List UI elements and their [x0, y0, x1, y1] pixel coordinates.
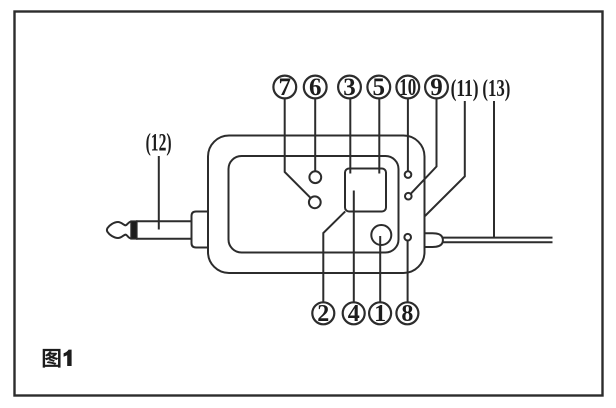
svg-text:5: 5	[373, 74, 386, 101]
leader 4	[353, 191, 355, 303]
plug insulator band	[131, 221, 137, 239]
leader 1	[379, 236, 381, 302]
small circle 8	[404, 234, 411, 241]
label circle 6	[304, 76, 327, 99]
label circle 10	[396, 76, 419, 99]
leader 11	[425, 101, 465, 216]
cable	[442, 238, 552, 243]
small circle 10	[405, 171, 412, 178]
device body inner panel	[229, 156, 399, 253]
button circle 1	[371, 225, 391, 245]
figure label tu (Chinese char)	[43, 349, 61, 368]
plug collar	[192, 212, 209, 248]
leader 2	[323, 211, 345, 302]
cable boot	[425, 233, 443, 247]
svg-text:10: 10	[399, 75, 416, 101]
indicator circle 6	[309, 171, 321, 183]
leader 13	[493, 101, 495, 238]
device body outer shell	[208, 136, 425, 274]
leader 8	[407, 241, 409, 303]
svg-text:2: 2	[317, 301, 329, 327]
svg-text:(13): (13)	[482, 76, 510, 102]
svg-text:3: 3	[343, 74, 356, 101]
svg-text:6: 6	[309, 74, 322, 101]
leader 7	[285, 99, 311, 198]
leader 10	[407, 99, 409, 172]
svg-text:1: 1	[374, 301, 386, 327]
svg-text:(11): (11)	[451, 76, 479, 102]
label circle 8	[396, 302, 418, 324]
svg-text:7: 7	[279, 74, 292, 101]
label circle 1	[369, 302, 391, 324]
svg-text:(12): (12)	[146, 130, 172, 157]
leader 12	[158, 156, 160, 230]
leader 5	[378, 99, 380, 174]
plug tip	[107, 222, 131, 239]
small circle 9	[405, 193, 412, 200]
leader 6	[314, 99, 316, 172]
label circle 4	[343, 302, 365, 324]
display window 3	[345, 169, 386, 212]
leader 9	[411, 99, 437, 194]
indicator circle 7	[309, 196, 321, 208]
leader 3	[349, 99, 351, 174]
svg-text:8: 8	[401, 301, 413, 327]
label circle 2	[312, 302, 334, 324]
svg-text:9: 9	[430, 74, 443, 101]
label circle 3	[338, 76, 361, 99]
label circle 9	[425, 76, 448, 99]
figure label digit 1	[64, 350, 72, 366]
svg-text:4: 4	[348, 301, 360, 327]
label circle 7	[273, 76, 296, 99]
label circle 5	[367, 76, 390, 99]
plug shaft 12	[136, 221, 192, 238]
